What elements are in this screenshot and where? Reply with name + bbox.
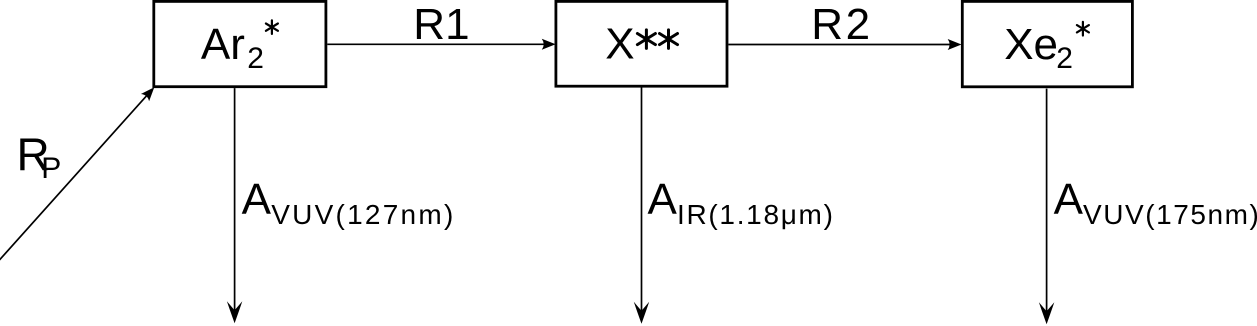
svg-text:A: A xyxy=(648,175,678,224)
superscript star of Ar2* xyxy=(266,20,278,34)
box Xe2* xyxy=(962,1,1132,86)
svg-text:IR(1.18μm): IR(1.18μm) xyxy=(677,199,835,230)
box X** xyxy=(556,1,727,86)
decay arrow from X** xyxy=(634,87,649,323)
svg-text:Ar: Ar xyxy=(201,20,245,69)
box Ar2* xyxy=(154,1,326,86)
svg-text:VUV(127nm): VUV(127nm) xyxy=(271,199,455,230)
second star of X** xyxy=(660,30,678,49)
label Xe2 xyxy=(1004,20,1073,75)
arrow RP pump (into Ar2* box corner) xyxy=(0,87,154,260)
label X xyxy=(605,20,634,69)
label R1 xyxy=(413,0,469,49)
svg-text:2: 2 xyxy=(247,42,264,75)
label R2 xyxy=(811,0,872,49)
svg-text:A: A xyxy=(1054,175,1084,224)
first star of X** xyxy=(637,30,655,49)
svg-text:A: A xyxy=(242,175,272,224)
label A_IR(1.18um) xyxy=(648,175,835,230)
svg-text:VUV(175nm): VUV(175nm) xyxy=(1083,199,1257,230)
svg-text:R2: R2 xyxy=(811,0,872,49)
arrow R1 (Ar2* to X**) xyxy=(327,39,555,50)
decay arrow from Xe2* xyxy=(1039,89,1054,325)
label A_VUV(175nm) xyxy=(1054,175,1257,230)
svg-text:R1: R1 xyxy=(413,0,469,49)
superscript star of Xe2* xyxy=(1077,22,1089,36)
decay arrow from Ar2* xyxy=(227,88,242,323)
arrow R2 (X** to Xe2*) xyxy=(728,39,961,50)
svg-text:P: P xyxy=(41,152,61,185)
svg-text:2: 2 xyxy=(1056,42,1073,75)
label A_VUV(127nm) xyxy=(242,175,456,230)
label Ar2 xyxy=(201,20,264,75)
svg-text:Xe: Xe xyxy=(1004,20,1058,69)
label RP xyxy=(17,129,62,185)
svg-text:X: X xyxy=(605,20,634,69)
